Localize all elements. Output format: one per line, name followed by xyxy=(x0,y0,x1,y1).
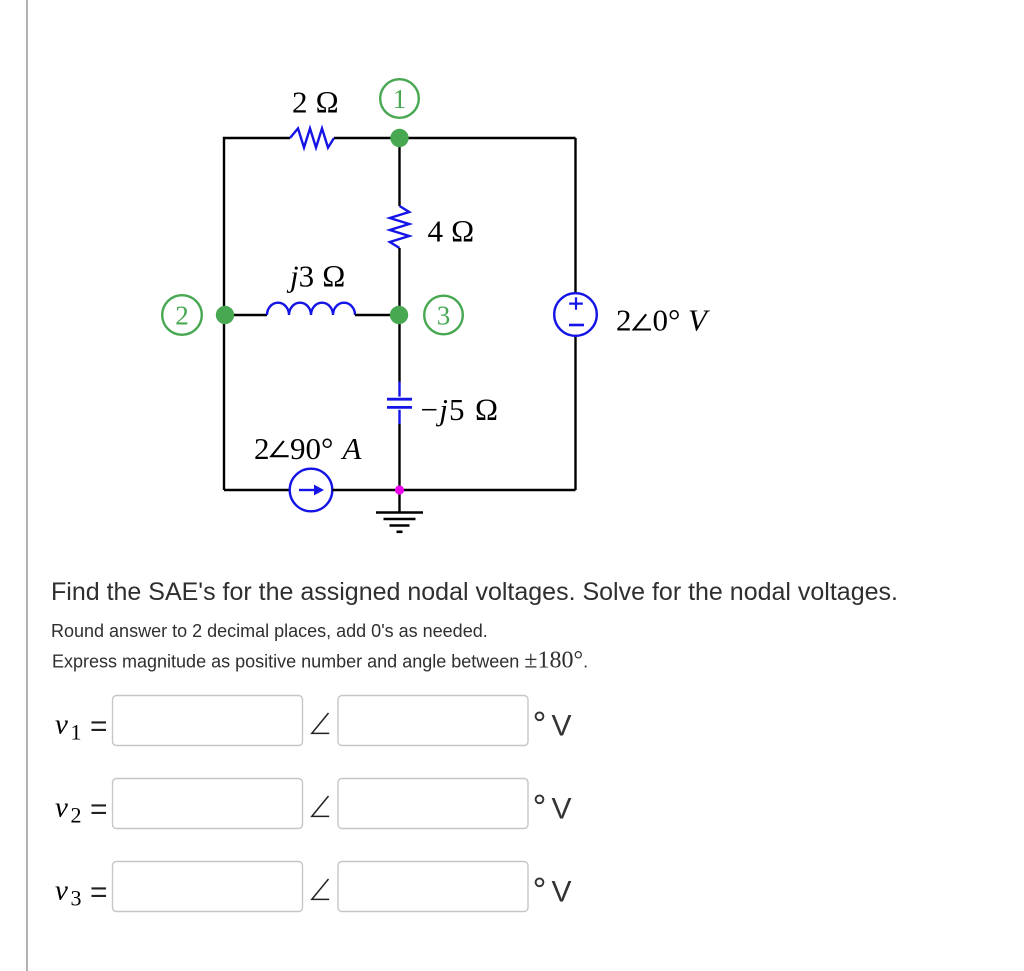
svg-text:90°: 90° xyxy=(290,431,333,466)
ground node (magenta dot) xyxy=(395,485,404,494)
row v2: angle input box xyxy=(338,779,528,829)
svg-text:A: A xyxy=(341,431,363,466)
label 2∠90° A xyxy=(254,431,363,466)
node 1 (green junction dot) xyxy=(390,129,408,147)
wire: current source to ground node xyxy=(332,489,575,491)
row v1: angle input box xyxy=(338,696,528,746)
row v3: angle symbol xyxy=(312,879,329,899)
svg-text:0°: 0° xyxy=(653,303,681,338)
wire: node2 to inductor xyxy=(225,314,267,316)
wire: top-left loop (left vertical + top segment to resistor) xyxy=(224,138,290,490)
wire: right side upper (corner down to voltage source) xyxy=(574,138,576,293)
svg-text:2: 2 xyxy=(616,303,632,338)
wire: node1 down to 4ohm resistor xyxy=(398,138,400,206)
svg-text:2 Ω: 2 Ω xyxy=(292,85,339,120)
wire: inductor to node3 xyxy=(355,314,400,316)
node label 2 (green circle) xyxy=(162,295,202,335)
wire: capacitor down to bottom node xyxy=(398,424,400,490)
svg-text:V: V xyxy=(552,876,572,909)
svg-text:v: v xyxy=(55,875,68,907)
inductor L j3ohm (blue coil) xyxy=(267,303,355,315)
resistor R 4ohm (vertical blue zigzag) xyxy=(390,206,409,248)
svg-text:1: 1 xyxy=(71,720,82,745)
svg-text:1: 1 xyxy=(393,84,407,114)
row v3: degree V unit xyxy=(536,876,572,909)
row v3: angle input box xyxy=(338,862,528,912)
capacitor C -j5ohm (blue plates) xyxy=(387,382,412,425)
wire: right side lower (voltage source down to bottom-right corner) xyxy=(574,336,576,490)
node label 1 (green circle) xyxy=(380,79,419,118)
row v2: magnitude input box xyxy=(113,779,303,829)
svg-text:v: v xyxy=(55,709,68,741)
label 2∠0° V xyxy=(616,303,710,338)
wire: bottom-left segment to current source xyxy=(224,489,290,491)
svg-text:=: = xyxy=(90,876,108,909)
row v1: label xyxy=(55,709,108,745)
current source I1 2∠90°A (blue circle with arrow) xyxy=(290,469,333,512)
svg-text:v: v xyxy=(55,792,68,824)
svg-text:=: = xyxy=(90,793,108,826)
node 2 (green junction dot) xyxy=(216,306,234,324)
voltage source V1 2∠0°V (blue circle with +/-) xyxy=(554,293,597,336)
svg-text:2: 2 xyxy=(71,803,82,828)
svg-text:V: V xyxy=(688,303,710,338)
row v3: label xyxy=(55,875,108,911)
ground xyxy=(376,490,423,532)
node label 3 (green circle) xyxy=(424,296,463,335)
row v2: label xyxy=(55,792,108,828)
row v1: magnitude input box xyxy=(113,696,303,746)
row v1: degree V unit xyxy=(536,710,572,743)
svg-text:Find the SAE's for the assigne: Find the SAE's for the assigned nodal vo… xyxy=(51,578,898,606)
resistor R 2ohm (blue zigzag) xyxy=(290,128,334,147)
svg-text:Express magnitude as positive: Express magnitude as positive number and… xyxy=(52,648,588,674)
node 3 (green junction dot) xyxy=(390,306,408,324)
row v2: angle symbol xyxy=(312,796,329,816)
svg-text:2: 2 xyxy=(254,431,270,466)
svg-text:3: 3 xyxy=(71,886,82,911)
left page border line xyxy=(26,0,28,971)
row v2: degree V unit xyxy=(536,793,572,826)
row v1: angle symbol xyxy=(312,713,329,733)
svg-text:4 Ω: 4 Ω xyxy=(428,214,475,249)
svg-text:=: = xyxy=(90,710,108,743)
row v3: magnitude input box xyxy=(113,862,303,912)
svg-text:2: 2 xyxy=(175,301,189,331)
wire: 4ohm resistor down to node3 xyxy=(398,248,400,315)
svg-text:V: V xyxy=(552,793,572,826)
svg-text:3: 3 xyxy=(437,301,451,331)
wire: resistor right to top-right corner xyxy=(334,137,576,139)
wire: node3 down to capacitor xyxy=(398,315,400,382)
svg-text:j3 Ω: j3 Ω xyxy=(286,259,346,294)
svg-text:V: V xyxy=(552,710,572,743)
svg-text:−j5 Ω: −j5 Ω xyxy=(421,392,500,427)
svg-text:Round answer to 2 decimal plac: Round answer to 2 decimal places, add 0'… xyxy=(51,621,488,641)
